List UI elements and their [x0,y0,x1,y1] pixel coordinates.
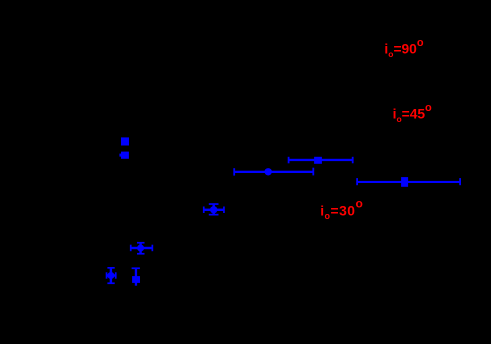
data square S1 [121,137,129,145]
error bar B9 with square marker [356,177,461,187]
error bar B7 with circle marker [233,168,314,176]
data point P5 with xy error bars [106,267,117,284]
data point P4 with xy error bars [130,242,153,255]
data point P3 with xy error bars [203,203,225,215]
data square S2 with left cap [119,152,128,159]
error bar B8 with square marker [288,157,354,164]
data square S6 with y error bar [132,267,140,285]
